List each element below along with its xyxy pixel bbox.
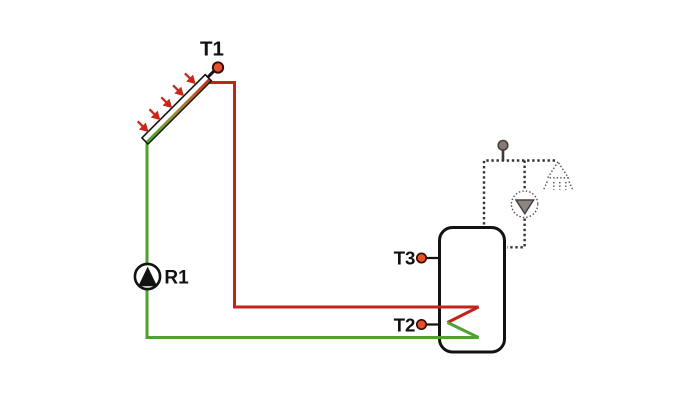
svg-text:R1: R1	[164, 268, 189, 289]
sun ray arrow 4	[173, 85, 182, 94]
svg-text:T3: T3	[394, 248, 416, 269]
shower spray lines	[544, 182, 573, 190]
storage tank	[440, 228, 505, 353]
collector gradient absorber stripe	[146, 79, 210, 143]
solar collector panel	[142, 75, 211, 144]
sensor T1 stub	[207, 71, 214, 78]
svg-text:T2: T2	[394, 315, 416, 336]
shower symbol outline	[548, 162, 569, 178]
sun ray arrow 5	[185, 73, 194, 82]
dashed circulation pipe: upper segment to circulation pump	[523, 161, 525, 191]
sun ray arrow 3	[161, 97, 170, 106]
sensor T2	[417, 320, 426, 329]
pipe: hot supply from collector to tank heat exchanger (red)	[208, 83, 479, 323]
tap symbol head	[498, 141, 508, 151]
svg-text:T1: T1	[200, 38, 224, 61]
pipe: cold return from tank heat exchanger to collector (green)	[147, 139, 479, 338]
sun ray arrow 1	[138, 121, 147, 130]
sensor T2 stub	[422, 323, 440, 325]
pump R1	[135, 264, 160, 289]
sensor T3	[417, 253, 426, 262]
sensor T1	[213, 62, 223, 72]
tap symbol stem	[502, 149, 505, 161]
sun ray arrow 2	[150, 109, 159, 118]
dashed circulation pipe: lower segment into tank right wall	[507, 219, 525, 248]
sensor T3 stub	[422, 257, 440, 259]
circulation pump triangle	[516, 200, 534, 214]
dashed hot-water pipe: tank top to tap line (vertical + horizontal to shower)	[484, 161, 557, 225]
circulation pump (dashed circle)	[511, 191, 537, 217]
